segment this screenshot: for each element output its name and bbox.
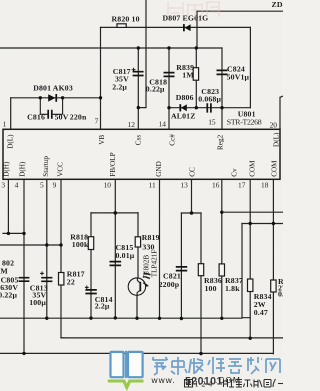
capacitor C816 leads <box>40 98 62 115</box>
svg-text:7: 7 <box>95 117 99 126</box>
svg-text:220n: 220n <box>70 113 87 122</box>
wire pin5/C813 column <box>46 180 48 319</box>
wire bottom rail 1 <box>0 317 250 320</box>
svg-text:1: 1 <box>3 120 7 129</box>
svg-text:2.2μ: 2.2μ <box>95 302 110 311</box>
wire startup row <box>0 244 61 246</box>
svg-text:M: M <box>0 267 8 276</box>
wire COM row <box>242 223 283 225</box>
svg-text:0.22μ: 0.22μ <box>0 290 17 299</box>
svg-text:13: 13 <box>180 181 188 190</box>
capacitor C805 plates <box>19 278 30 282</box>
wire R820/D807 line <box>101 26 251 28</box>
svg-text:R820 10: R820 10 <box>112 15 140 24</box>
svg-text:Cc#: Cc# <box>169 134 177 146</box>
opto designator labels (rotated) <box>143 250 159 278</box>
wire R839 column <box>195 48 197 108</box>
wire pin12 column <box>137 48 139 129</box>
polarity marks <box>40 68 135 289</box>
capacitor C824 plates <box>217 70 228 74</box>
capacitor C816 plates <box>48 110 52 119</box>
capacitor C818 plates <box>164 73 175 77</box>
watermark book icon <box>111 351 143 378</box>
svg-text:50V: 50V <box>55 113 69 122</box>
resistor R836 <box>198 264 203 276</box>
svg-text:COM: COM <box>249 160 257 177</box>
svg-text:1-2-4: 1-2-4 <box>195 380 213 389</box>
svg-text:9: 9 <box>53 181 57 190</box>
resistor R834 <box>248 279 253 292</box>
svg-text:AL01Z: AL01Z <box>171 112 196 121</box>
watermark top faint <box>168 2 220 18</box>
wire pins3-4 link <box>3 232 24 234</box>
svg-text:0.: 0. <box>278 290 283 299</box>
svg-text:100μ: 100μ <box>29 298 46 307</box>
svg-text:0.22μ: 0.22μ <box>146 85 165 94</box>
wire pin20 stub <box>280 96 283 129</box>
IC U801 STR-T2268 body <box>3 129 280 179</box>
wire C821 column <box>180 213 182 319</box>
svg-text:17: 17 <box>238 181 246 190</box>
svg-text:20: 20 <box>270 120 278 129</box>
svg-text:100k: 100k <box>72 240 89 249</box>
svg-text:0.47: 0.47 <box>254 308 268 317</box>
svg-text:10: 10 <box>104 181 112 190</box>
svg-text:1M: 1M <box>182 70 194 79</box>
wire top right net <box>197 11 283 48</box>
wire D801 row <box>11 97 101 99</box>
svg-text:100: 100 <box>205 284 217 293</box>
svg-text:Css: Css <box>135 135 143 146</box>
watermark site name (stylized) <box>153 357 281 375</box>
wire pin13 stub <box>191 180 193 214</box>
diode D801 <box>48 94 57 102</box>
svg-text:5: 5 <box>40 181 44 190</box>
svg-text:18: 18 <box>261 181 269 190</box>
svg-text:www.: www. <box>151 375 176 385</box>
wire pin17/R834 column <box>249 180 251 339</box>
svg-text:Cv: Cv <box>231 168 239 177</box>
svg-text:11: 11 <box>149 181 156 190</box>
wire pin7 column <box>100 27 102 129</box>
svg-text:D(H): D(H) <box>3 161 11 177</box>
wire pin3 stub <box>7 180 9 234</box>
wire R818/C814 column <box>90 213 92 318</box>
svg-text:16: 16 <box>212 181 220 190</box>
wire drain line from top edge <box>138 0 146 108</box>
svg-text:D(L): D(L) <box>7 134 15 149</box>
wire pin10/C815 column <box>114 180 116 318</box>
capacitor C823 plates <box>207 103 211 112</box>
IC pin name labels (rotated) <box>3 132 281 177</box>
svg-text:D(H): D(H) <box>19 161 27 177</box>
pin numbers top <box>3 117 278 130</box>
svg-text:GND: GND <box>155 161 163 177</box>
svg-text:4: 4 <box>15 181 19 190</box>
svg-text:R819: R819 <box>142 233 160 242</box>
wire D807 cathode down <box>249 27 251 107</box>
svg-text:STR-T2268: STR-T2268 <box>227 117 262 126</box>
svg-text:0.01μ: 0.01μ <box>116 251 135 260</box>
resistor R819 <box>135 237 140 247</box>
diode D806 <box>179 104 186 111</box>
wire bottom rail 2 <box>61 337 283 339</box>
svg-text:U802B: U802B <box>143 255 151 276</box>
wire pin15/C824 column <box>221 48 223 129</box>
svg-text:2.2μ: 2.2μ <box>112 82 127 91</box>
resistor R837 <box>219 264 224 276</box>
svg-text:D(L): D(L) <box>273 132 281 147</box>
optocoupler U802B phototransistor <box>128 272 150 295</box>
svg-text:TLP421F: TLP421F <box>151 250 159 278</box>
wire FB row <box>91 212 138 214</box>
wire pin4/C805 column <box>23 180 25 354</box>
capacitor C815 plates <box>110 262 122 266</box>
resistor R820 <box>117 24 126 28</box>
watermark url row <box>151 375 241 387</box>
wire pin16 right <box>222 211 283 213</box>
wire R819/opto column <box>137 213 138 318</box>
wire pin13 row <box>181 212 201 214</box>
resistor R817 <box>59 273 64 286</box>
svg-text:C816: C816 <box>27 113 45 122</box>
svg-text:Reg2: Reg2 <box>217 134 225 150</box>
svg-text:FB/OLP: FB/OLP <box>109 152 117 176</box>
wire pin18 column <box>272 180 274 354</box>
wire pin16 column <box>221 180 223 319</box>
svg-text:COM: COM <box>271 160 279 177</box>
capacitor C814 plates <box>85 290 96 294</box>
svg-text:15: 15 <box>208 118 216 127</box>
wire pin11 column <box>159 180 161 319</box>
svg-text:D806: D806 <box>176 93 194 102</box>
watermark green ribbon <box>108 381 144 387</box>
resistor R839 <box>193 68 198 81</box>
svg-text:1.8k: 1.8k <box>225 284 240 293</box>
svg-text:50V1μ: 50V1μ <box>227 73 250 82</box>
capacitor C821 plates <box>176 267 187 271</box>
svg-text:0.068μ: 0.068μ <box>198 95 221 104</box>
svg-text:3: 3 <box>1 181 5 190</box>
wire pin9/R817 column <box>61 180 64 338</box>
wire D806/C823 row <box>169 107 250 109</box>
figure caption <box>185 380 193 388</box>
pin numbers bottom <box>1 181 268 190</box>
svg-text:12: 12 <box>128 120 136 129</box>
wire R836 column <box>200 213 202 354</box>
svg-text:Startup: Startup <box>42 156 50 177</box>
svg-text:VCC: VCC <box>57 162 65 177</box>
svg-text:2200p: 2200p <box>159 280 180 289</box>
svg-text:CC: CC <box>189 167 197 177</box>
wire pin1 column <box>10 98 12 130</box>
wire main top bus <box>0 47 222 49</box>
wire bottom rail 3 <box>0 352 273 354</box>
diode D807 <box>183 24 191 31</box>
svg-text:22: 22 <box>67 277 75 286</box>
wire COM riser <box>241 224 243 318</box>
capacitor C813 plates <box>41 278 52 282</box>
resistor R838 (cut) <box>271 280 276 292</box>
capacitor C817 plates <box>133 72 144 76</box>
svg-text:14: 14 <box>159 119 167 128</box>
svg-text:ZD80: ZD80 <box>272 0 284 9</box>
wire pin14 column <box>168 48 170 129</box>
svg-text:D801 AK03: D801 AK03 <box>33 83 73 92</box>
resistor R818 <box>88 237 93 250</box>
svg-text:VB: VB <box>98 135 106 145</box>
